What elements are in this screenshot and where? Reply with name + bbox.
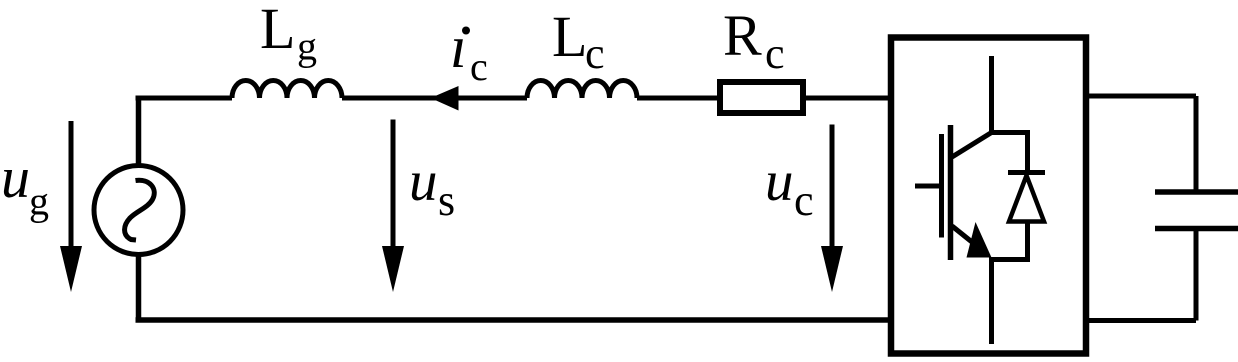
arrow uc line: [830, 125, 835, 253]
label ic dot: [462, 27, 470, 35]
svg-text:ı: ı: [450, 14, 467, 80]
AC source sine squiggle: [125, 180, 155, 240]
arrow us head: [382, 246, 404, 292]
IGBT gate bar: [939, 134, 944, 238]
svg-text:u: u: [1, 145, 30, 210]
current arrow ic head: [431, 86, 459, 111]
wire left vertical upper: [136, 96, 142, 166]
svg-text:c: c: [470, 44, 488, 89]
IGBT emitter diagonal: [952, 226, 985, 253]
wire left vertical lower: [136, 255, 142, 323]
wire Rc-to-box horizontal: [806, 96, 891, 101]
IGBT emitter arrow: [967, 222, 992, 258]
svg-text:g: g: [29, 179, 49, 224]
IGBT body bar: [948, 125, 954, 260]
diode D1 cathode bar: [1008, 170, 1045, 175]
wire cap top lead: [1194, 96, 1199, 192]
svg-text:c: c: [794, 176, 814, 225]
wire cap bottom lead: [1194, 229, 1199, 321]
arrow uc head: [821, 246, 843, 292]
IGBT emitter lead: [989, 257, 994, 344]
wire top-left horizontal: [136, 96, 233, 101]
svg-text:g: g: [297, 24, 317, 69]
diode D1 triangle: [1009, 176, 1044, 222]
AC source circle: [94, 166, 183, 255]
svg-text:c: c: [585, 29, 605, 78]
diode D1 bottom lead: [1025, 222, 1030, 263]
arrow ug line: [69, 121, 74, 252]
capacitor top plate: [1155, 189, 1238, 195]
wire Lc-to-Rc horizontal: [637, 96, 717, 101]
wire emitter-to-diode horizontal: [989, 257, 1028, 262]
IGBT collector lead: [989, 56, 994, 133]
svg-text:c: c: [765, 29, 785, 78]
svg-text:R: R: [723, 3, 762, 68]
capacitor bottom plate: [1155, 226, 1238, 232]
svg-text:u: u: [409, 150, 438, 213]
wire box-to-cap bottom: [1086, 318, 1196, 323]
svg-text:s: s: [438, 176, 455, 225]
arrow us line: [391, 120, 396, 253]
svg-text:L: L: [260, 0, 295, 61]
inductor Lg coil: [232, 81, 342, 99]
wire bottom horizontal: [136, 317, 892, 323]
svg-text:u: u: [765, 150, 794, 213]
diode D1 top lead: [1025, 130, 1030, 172]
inductor Lc coil: [527, 81, 637, 99]
wire top-middle horizontal: [342, 96, 527, 101]
converter box: [891, 38, 1086, 354]
arrow ug head: [60, 246, 82, 292]
svg-text:L: L: [552, 4, 587, 69]
wire box-to-cap top: [1086, 94, 1196, 99]
wire collector-to-diode horizontal: [992, 130, 1028, 135]
resistor Rc: [720, 82, 803, 113]
IGBT gate lead: [915, 184, 941, 189]
IGBT collector diagonal: [952, 133, 992, 158]
